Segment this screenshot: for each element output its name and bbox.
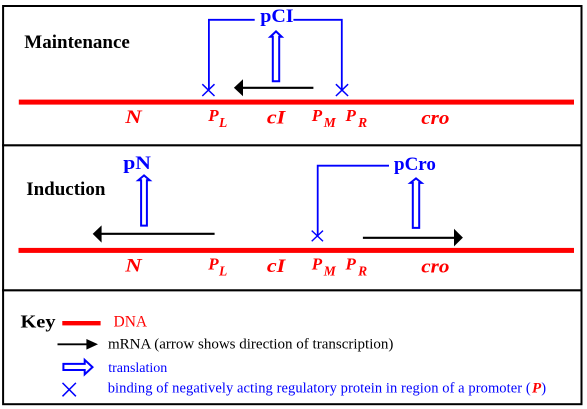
promoter label PL (induction) — [207, 254, 227, 278]
svg-text:binding of negatively acting r: binding of negatively acting regulatory … — [108, 380, 531, 396]
svg-text:Maintenance: Maintenance — [24, 32, 130, 53]
svg-text:cro: cro — [421, 108, 449, 129]
promoter label PR (maintenance) — [345, 106, 368, 130]
binding X at PM (induction) — [312, 231, 323, 242]
svg-text:P: P — [207, 106, 219, 125]
svg-text:pCro: pCro — [394, 154, 436, 175]
svg-text:translation: translation — [108, 361, 167, 376]
DNA line (maintenance) — [19, 100, 574, 105]
svg-text:cI: cI — [267, 108, 286, 128]
binding X at PR (maintenance) — [336, 84, 348, 96]
mRNA arrow left (cI transcript) — [234, 79, 314, 96]
wire pCI bracket right — [293, 20, 341, 90]
svg-text:pN: pN — [123, 153, 151, 174]
svg-text:cI: cI — [267, 256, 286, 276]
wire pCro bracket — [318, 166, 389, 236]
svg-text:P: P — [345, 106, 357, 125]
promoter label PM (maintenance) — [311, 106, 337, 130]
svg-text:Key: Key — [21, 312, 56, 332]
svg-text:N: N — [124, 254, 142, 276]
svg-text:R: R — [357, 264, 367, 279]
translation arrow up to pCI — [270, 31, 281, 81]
panel divider 2 — [2, 289, 582, 291]
wire pCI bracket left — [209, 20, 255, 90]
svg-text:P: P — [311, 106, 323, 125]
svg-text:R: R — [357, 115, 367, 130]
svg-text:Induction: Induction — [26, 179, 106, 200]
promoter label PR (induction) — [345, 254, 368, 278]
key mRNA sample arrow — [58, 339, 99, 350]
svg-text:L: L — [218, 115, 227, 130]
svg-text:cro: cro — [421, 256, 449, 277]
svg-text:M: M — [323, 264, 337, 279]
svg-text:N: N — [124, 106, 142, 128]
svg-text:): ) — [541, 380, 546, 396]
svg-text:L: L — [218, 264, 227, 279]
svg-text:mRNA (arrow shows direction of: mRNA (arrow shows direction of transcrip… — [108, 336, 393, 352]
translation arrow up to pCro — [410, 178, 421, 228]
mRNA arrow right (cro transcript) — [363, 229, 463, 247]
svg-text:M: M — [323, 115, 337, 130]
promoter label PL (maintenance) — [207, 106, 227, 130]
svg-text:P: P — [311, 254, 323, 273]
svg-text:P: P — [207, 254, 219, 273]
translation arrow up to pN — [138, 175, 149, 225]
panel divider 1 — [2, 144, 582, 146]
binding X at PL (maintenance) — [202, 84, 214, 96]
svg-text:P: P — [345, 254, 357, 273]
promoter label PM (induction) — [311, 254, 337, 278]
mRNA arrow left (N transcript) — [93, 225, 215, 242]
key binding X sample — [63, 383, 76, 396]
key translation sample arrow — [63, 360, 92, 374]
key DNA sample line — [62, 321, 100, 325]
svg-text:pCI: pCI — [260, 6, 293, 26]
DNA line (induction) — [19, 248, 575, 253]
svg-text:DNA: DNA — [114, 314, 148, 331]
